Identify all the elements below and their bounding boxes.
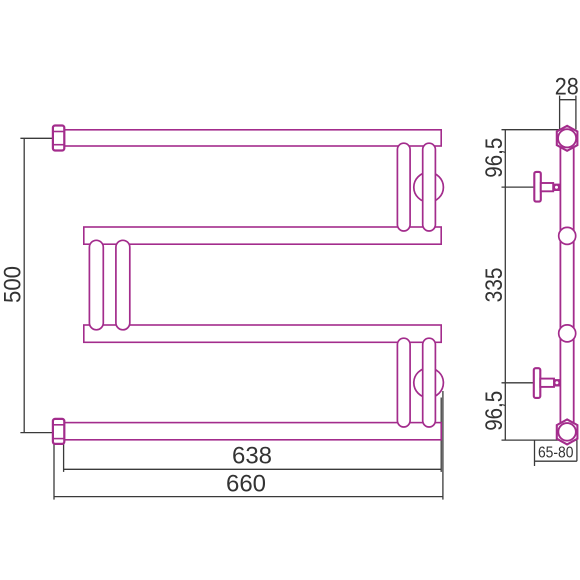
side dimension vertical line	[504, 130, 506, 440]
label 335	[481, 267, 508, 302]
bracket circle top right	[414, 172, 444, 202]
dimension 660 left extension	[53, 444, 55, 500]
wall bracket 2 collar	[554, 380, 560, 386]
third bar	[84, 325, 441, 342]
svg-text:638: 638	[232, 443, 272, 470]
svg-text:96,5: 96,5	[481, 138, 508, 178]
bottom bar	[64, 423, 441, 440]
side anchor bracket1 extension	[502, 186, 535, 188]
svg-text:500: 500	[0, 266, 26, 303]
wall bracket 1 flange	[534, 172, 541, 202]
bracket circle bottom right	[414, 368, 444, 398]
dimension 660 right extension	[442, 391, 444, 500]
label 96,5 bottom	[481, 391, 508, 431]
collector C2 tube 1	[89, 240, 103, 329]
box 65-80 right border	[576, 440, 578, 461]
dimension 638 line	[64, 468, 442, 470]
dimension 28 left extension	[559, 96, 561, 130]
collector C3 tube 2	[423, 338, 436, 427]
label 660	[226, 471, 266, 498]
dimension 638 right extension	[440, 398, 442, 472]
label 96,5 top	[481, 138, 508, 178]
top bar	[64, 130, 441, 146]
label 28	[555, 73, 579, 100]
side anchor top extension	[502, 129, 560, 131]
collector C2 tube 2	[116, 240, 130, 329]
second bar	[84, 227, 441, 244]
wall bracket 2 flange	[534, 368, 541, 398]
ball joint upper	[559, 227, 576, 244]
hex fitting bottom	[557, 419, 578, 444]
wall bracket 1 collar	[553, 184, 560, 190]
wall bracket 2 stem	[540, 379, 554, 387]
hex fitting top	[557, 126, 578, 151]
label 65-80	[538, 445, 574, 462]
dimension 28 right extension	[575, 96, 577, 130]
dimension 28 line	[560, 99, 576, 101]
dimension 500 bottom extension line	[20, 432, 53, 434]
svg-text:28: 28	[555, 73, 579, 100]
ball joint lower	[559, 325, 576, 342]
side anchor bottom extension / box top	[502, 439, 577, 441]
dimension 638 left extension	[63, 444, 65, 472]
dimension 500 top extension line	[20, 137, 53, 139]
label 500	[0, 266, 26, 303]
hex nut top left	[53, 126, 64, 151]
svg-text:96,5: 96,5	[481, 391, 508, 431]
collector C1 tube 2	[423, 143, 436, 231]
vertical pipe	[560, 146, 573, 424]
box 65-80 bottom border	[535, 460, 577, 462]
svg-text:335: 335	[481, 267, 508, 302]
svg-text:660: 660	[226, 471, 266, 498]
svg-text:65-80: 65-80	[538, 445, 574, 462]
label 638	[232, 443, 272, 470]
collector C1 tube 1	[397, 143, 410, 231]
dimension 660 line	[54, 496, 443, 498]
wall bracket 1 stem	[541, 183, 553, 191]
collector C3 tube 1	[397, 338, 410, 427]
hex nut bottom left	[53, 419, 64, 444]
side anchor bracket2 extension	[502, 382, 534, 384]
box 65-80 left border	[534, 440, 536, 466]
dimension 500 vertical line	[23, 138, 25, 432]
